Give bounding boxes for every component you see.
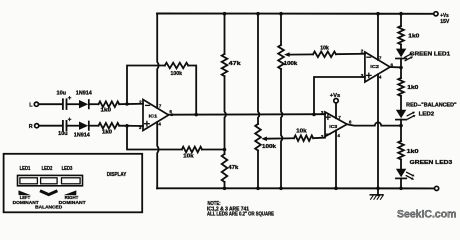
wire pot B top from rail xyxy=(280,14,282,46)
svg-text:47k: 47k xyxy=(228,165,238,171)
wire R1 to IC1 pin2 xyxy=(119,103,143,105)
display legend box xyxy=(4,154,143,213)
svg-text:SeekIC.com: SeekIC.com xyxy=(397,209,457,221)
LED2 emission arrows xyxy=(407,113,413,116)
wire pin3 node down to 10k row (hop drawn on pin4 wire) xyxy=(127,126,182,150)
wire L to C1 xyxy=(39,103,63,105)
node pot A bottom rail dot xyxy=(256,187,260,191)
svg-text:7: 7 xyxy=(338,115,341,120)
wire LED2 to IC3 output node xyxy=(400,120,402,126)
wire IC3 pin6 output to LED chain (hop over IC2 pin4 wire) xyxy=(347,122,401,125)
svg-text:100k: 100k xyxy=(171,71,183,77)
wire IC1 pin4 to 0V rail (hop over 10k row) xyxy=(157,122,158,188)
wiper arrow pot B xyxy=(284,52,290,57)
svg-text:7: 7 xyxy=(159,104,162,109)
wire pot A top from rail (hop over output row) xyxy=(258,14,259,125)
svg-text:LED2: LED2 xyxy=(42,166,53,172)
resistor R11 1k0 xyxy=(398,141,404,159)
wire 10k to IC2 pin2 xyxy=(336,53,365,55)
wire feedback up from pin2 node xyxy=(127,66,165,105)
node divider top rail dot xyxy=(223,12,227,16)
op-amp IC3 xyxy=(325,112,347,137)
svg-text:1k0: 1k0 xyxy=(408,33,419,39)
wire R11 to LED3 xyxy=(400,159,402,168)
node chain top rail dot xyxy=(399,12,403,16)
wire R to C2 xyxy=(39,125,62,127)
svg-text:DISPLAY: DISPLAY xyxy=(107,172,127,178)
wire D2 to R2 xyxy=(89,125,99,127)
LED LED1 green xyxy=(396,49,406,58)
svg-text:47k: 47k xyxy=(229,61,241,67)
svg-text:15V: 15V xyxy=(440,19,450,25)
wire C1 to D1 xyxy=(67,103,80,105)
terminal 0V xyxy=(435,186,439,190)
svg-text:+: + xyxy=(68,116,72,123)
wire IC2 pin4 down to ground rail xyxy=(377,74,379,195)
resistor R7 47k upper xyxy=(222,54,228,76)
node pot A top rail dot xyxy=(256,12,260,16)
svg-text:10k: 10k xyxy=(320,46,329,52)
LED LED2 red xyxy=(396,110,406,118)
svg-text:GREEN LED3: GREEN LED3 xyxy=(410,160,453,166)
resistor R9 10k xyxy=(313,52,336,58)
wire C2 to D2 xyxy=(67,125,80,127)
display LED2 window xyxy=(41,178,58,184)
svg-text:DOMINANT: DOMINANT xyxy=(59,200,86,206)
potentiometer VR1 100k xyxy=(278,45,284,69)
ground symbol xyxy=(370,194,383,196)
svg-text:1k0: 1k0 xyxy=(407,85,418,91)
wire LED1 to output node xyxy=(400,59,402,79)
node chain bottom rail dot xyxy=(399,187,403,191)
svg-text:R: R xyxy=(29,124,33,130)
svg-text:3: 3 xyxy=(361,73,364,78)
wire output row up to IC2 pin3 xyxy=(314,77,365,114)
wire R3 to LED1 xyxy=(400,44,402,48)
node IC1 output dot xyxy=(170,113,173,116)
wire divider bottom to rail xyxy=(224,182,226,188)
node pot B top rail dot xyxy=(279,12,283,16)
resistor R1 1k0 xyxy=(99,101,120,107)
LED LED3 green xyxy=(396,169,406,177)
wire R4 to LED2 xyxy=(400,96,402,110)
wire wiper B to 10k xyxy=(289,53,313,55)
svg-text:ALL LEDS ARE 0.2" OR SQUARE: ALL LEDS ARE 0.2" OR SQUARE xyxy=(207,211,275,217)
wire 0V bottom rail xyxy=(157,187,435,189)
svg-text:4: 4 xyxy=(337,133,340,138)
display LED1 window xyxy=(20,178,38,184)
svg-text:10k: 10k xyxy=(296,129,307,135)
svg-text:IC1: IC1 xyxy=(149,114,158,120)
display LED3 window xyxy=(62,178,81,184)
wire IC2 pin6 output to LED chain xyxy=(390,66,401,68)
wire divider top from rail xyxy=(224,14,226,55)
svg-text:2: 2 xyxy=(321,134,324,139)
op-amp IC1 xyxy=(143,100,169,131)
wire pot B bottom to rail (hops over output row and wiper A row) xyxy=(281,69,282,188)
svg-text:IC3: IC3 xyxy=(329,124,337,129)
svg-text:LED1: LED1 xyxy=(20,166,31,172)
svg-text:4: 4 xyxy=(379,75,382,80)
wire wiper A to 10k (pot B line hops) xyxy=(267,137,294,139)
node IC2-branch junction xyxy=(312,113,316,117)
wiper arrow pot A xyxy=(261,137,267,142)
node pot B bottom rail dot xyxy=(279,187,283,191)
diode D2 1N914 xyxy=(79,122,88,130)
wire pot A bottom to rail xyxy=(257,151,259,189)
wire R2 to IC1 pin3 xyxy=(119,125,143,127)
wire IC2 pin7 to +Vs rail xyxy=(377,14,379,60)
resistor R4 1k0 xyxy=(398,78,404,96)
svg-text:+Vs: +Vs xyxy=(330,93,341,99)
svg-text:1N914: 1N914 xyxy=(74,133,90,139)
svg-text:10k: 10k xyxy=(183,154,194,160)
svg-text:IC2: IC2 xyxy=(370,64,379,70)
LED1 emission arrows xyxy=(405,54,411,57)
balanced chevron xyxy=(40,191,57,195)
svg-text:100k: 100k xyxy=(262,144,276,150)
svg-text:2: 2 xyxy=(139,99,142,104)
wire IC3 pin4 to 0V rail xyxy=(335,130,337,188)
wire IC1 pin7 to +Vs rail (hop over feedback) xyxy=(157,14,158,108)
node divider bottom rail dot xyxy=(223,187,227,191)
right dominant wedge xyxy=(64,190,77,195)
resistor R10 10k xyxy=(294,135,313,141)
capacitor C2 10u xyxy=(62,121,64,131)
svg-text:7: 7 xyxy=(379,56,382,61)
wire feedback down to IC1 output xyxy=(188,66,196,115)
node IC2 pin7 rail dot xyxy=(376,12,380,16)
wire D1 to R1 xyxy=(89,103,99,105)
wire 10k to divider midpoint xyxy=(202,149,225,151)
svg-text:1k0: 1k0 xyxy=(102,130,112,136)
display LED window outer xyxy=(18,175,83,185)
node pin2 junction xyxy=(125,102,129,106)
left dominant wedge xyxy=(18,190,31,195)
node IC2 pin4 rail dot xyxy=(376,187,380,191)
svg-text:3: 3 xyxy=(321,110,324,115)
svg-text:10u: 10u xyxy=(58,131,67,137)
node IC3 pin4 rail dot xyxy=(334,187,338,191)
svg-text:+: + xyxy=(68,95,72,102)
diode D1 1N914 xyxy=(79,100,88,108)
wire +Vs top supply rail xyxy=(157,13,434,15)
node IC2 output junction xyxy=(399,66,403,70)
wire divider middle (hop over output row) xyxy=(225,76,226,154)
terminal +Vs xyxy=(434,12,438,16)
svg-text:GREEN LED1: GREEN LED1 xyxy=(410,52,451,58)
resistor R8 47k lower xyxy=(222,154,228,182)
capacitor C1 10u xyxy=(62,99,64,109)
wire IC1 output row to IC3 pin3 xyxy=(169,113,325,116)
svg-text:RED--"BALANCED": RED--"BALANCED" xyxy=(406,103,457,109)
resistor R6 10k xyxy=(182,147,202,153)
svg-text:LED2: LED2 xyxy=(419,111,435,117)
wire node to R11 xyxy=(400,126,402,141)
node IC3 output junction xyxy=(399,124,403,128)
wire 10k to IC3 pin2 xyxy=(313,137,325,140)
wire LED3 to 0V rail xyxy=(400,178,402,188)
resistor R5 100k feedback xyxy=(165,63,188,69)
svg-text:6: 6 xyxy=(169,109,172,114)
svg-text:10u: 10u xyxy=(57,90,67,96)
terminal +Vs IC3 xyxy=(334,99,338,103)
node pin3 junction xyxy=(125,124,129,128)
node divider midpoint xyxy=(223,148,227,152)
LED3 emission arrows xyxy=(407,172,413,175)
resistor R2 1k0 xyxy=(99,123,120,129)
svg-text:1k0: 1k0 xyxy=(101,108,112,114)
op-amp IC2 xyxy=(365,52,390,82)
potentiometer VR2 100k xyxy=(255,124,261,151)
resistor R3 1k0 xyxy=(398,26,404,44)
svg-text:LED3: LED3 xyxy=(62,166,73,172)
svg-text:1N914: 1N914 xyxy=(76,90,92,96)
node feedback-output junction xyxy=(194,113,198,117)
svg-text:4: 4 xyxy=(158,121,161,126)
svg-text:100k: 100k xyxy=(284,61,298,67)
svg-text:1k0: 1k0 xyxy=(407,149,419,155)
wire rail to R3 xyxy=(400,14,402,27)
svg-text:3: 3 xyxy=(139,125,142,130)
wire IC3 pin7 to +Vs terminal xyxy=(335,103,337,118)
svg-text:2: 2 xyxy=(361,48,364,53)
